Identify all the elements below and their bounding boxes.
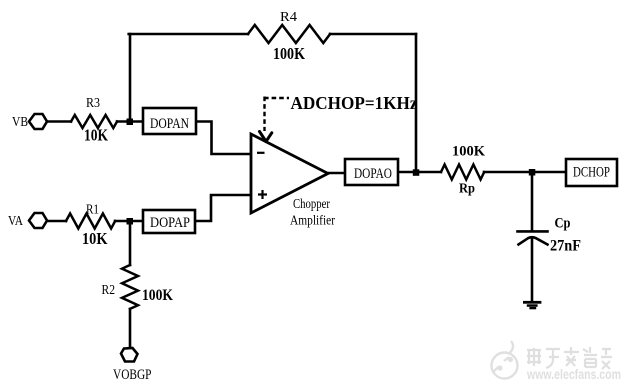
svg-text:Cp: Cp	[555, 216, 571, 232]
svg-text:ADCHOP=1KHz: ADCHOP=1KHz	[291, 93, 418, 113]
svg-text:Chopper: Chopper	[293, 197, 330, 212]
svg-text:100K: 100K	[273, 44, 305, 63]
svg-text:10K: 10K	[84, 126, 109, 145]
svg-text:R1: R1	[86, 203, 99, 218]
svg-text:VOBGP: VOBGP	[113, 367, 152, 383]
svg-text:DOPAO: DOPAO	[354, 166, 392, 182]
svg-text:VB: VB	[12, 115, 28, 130]
svg-text:100K: 100K	[452, 144, 485, 160]
svg-text:Amplifier: Amplifier	[290, 214, 335, 229]
svg-text:Rp: Rp	[459, 182, 475, 197]
svg-text:DOPAN: DOPAN	[150, 116, 189, 132]
svg-text:DCHOP: DCHOP	[573, 165, 610, 181]
svg-text:R2: R2	[102, 283, 116, 298]
svg-text:10K: 10K	[82, 229, 108, 248]
svg-text:DOPAP: DOPAP	[150, 215, 190, 231]
svg-text:R4: R4	[280, 10, 297, 25]
svg-text:VA: VA	[8, 214, 24, 229]
svg-text:R3: R3	[86, 96, 100, 111]
svg-text:27nF: 27nF	[550, 238, 581, 255]
svg-text:www.elecfans.com: www.elecfans.com	[526, 367, 621, 382]
svg-text:100K: 100K	[142, 287, 173, 304]
